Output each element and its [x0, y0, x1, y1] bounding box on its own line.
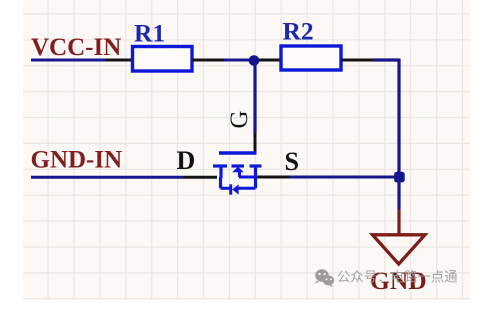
transistor Q1 channel dash 2 [232, 164, 245, 167]
wire down to ground [397, 177, 400, 210]
transistor Q1 channel dash 1 [213, 164, 227, 167]
wire R2 pin 1 [259, 59, 281, 62]
wire ground lead [397, 210, 400, 236]
wire gate net vertical [253, 62, 256, 133]
svg-text:G: G [226, 110, 253, 128]
wire gate pin [254, 133, 257, 152]
wire source to junction [290, 176, 395, 179]
transistor Q1 source stem [254, 166, 257, 188]
wire [224, 59, 259, 62]
watermark icon [315, 269, 335, 287]
transistor Q1 drain stem [219, 166, 222, 178]
wire VCC-IN net [31, 59, 106, 62]
wire GND-IN net [31, 176, 184, 179]
wire R2 pin 2 [341, 59, 373, 62]
node junction R1/R2/gate [249, 55, 260, 66]
transistor Q1 bulk wire [239, 176, 258, 179]
transistor Q1 body left stem [219, 177, 222, 188]
wire drain pin [184, 176, 217, 179]
resistor R2 [281, 46, 341, 70]
transistor Q1 body diode cathode bar [229, 184, 232, 194]
transistor Q1 body bottom left [221, 187, 230, 190]
resistor R1 [133, 47, 193, 72]
transistor Q1 channel dash 3 [250, 164, 262, 167]
svg-text:R2: R2 [283, 17, 314, 46]
svg-text:R1: R1 [134, 19, 165, 48]
wire R1 pin 1 [106, 59, 133, 62]
transistor Q1 bulk arrow [232, 167, 244, 173]
transistor Q1 body diode [232, 184, 238, 194]
svg-text:VCC-IN: VCC-IN [31, 34, 121, 61]
ground symbol [373, 235, 426, 264]
wire to right corner [373, 59, 399, 177]
svg-text:GND-IN: GND-IN [31, 147, 123, 174]
svg-text:S: S [285, 147, 299, 176]
transistor Q1 gate plate [219, 151, 257, 154]
wire source pin [258, 176, 290, 179]
node junction S/GND [394, 172, 405, 183]
svg-text:D: D [177, 146, 196, 175]
svg-text:公众号：电路一点通: 公众号：电路一点通 [337, 270, 458, 285]
wire R1 pin 2 [192, 59, 224, 62]
transistor Q1 body bottom right [239, 187, 256, 190]
